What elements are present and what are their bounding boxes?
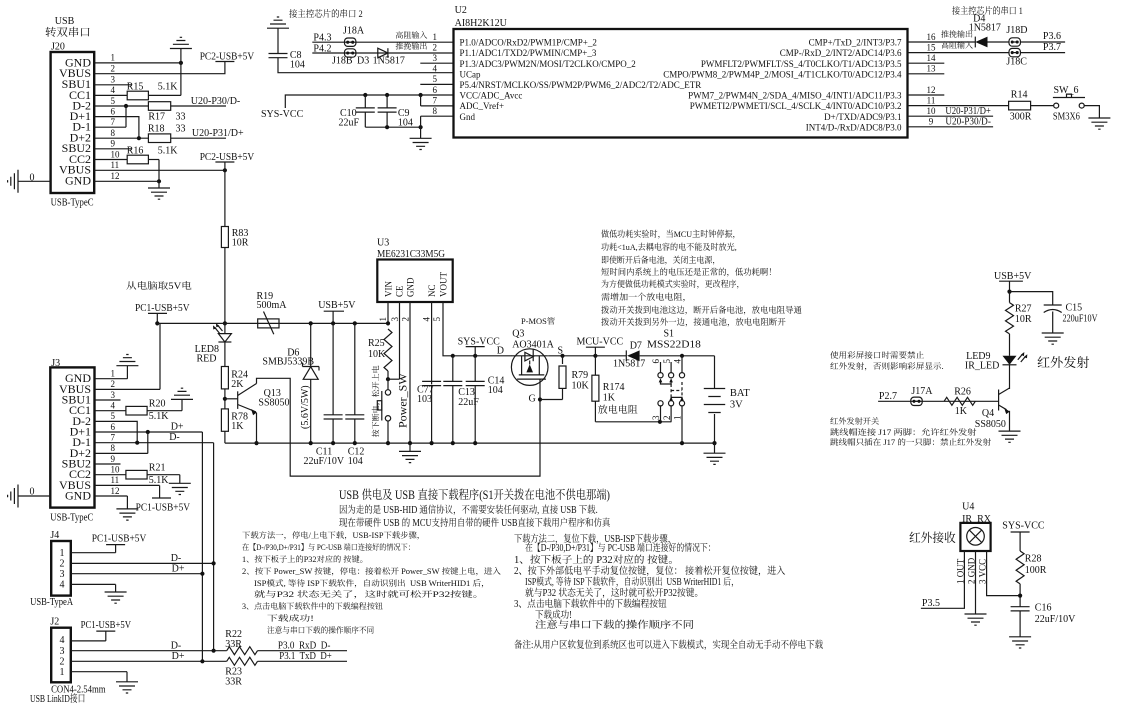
svg-text:15: 15: [927, 42, 937, 52]
wire R27 to LED9: [1009, 334, 1011, 356]
wire Q3 gate: [539, 386, 541, 400]
diode D7 1N5817: [595, 355, 626, 357]
U2 pin16 wire: [908, 41, 976, 43]
resistor R18: [148, 134, 170, 143]
J4 pin4 wire to gnd: [71, 583, 116, 585]
svg-text:3 VCC: 3 VCC: [978, 559, 988, 584]
svg-text:R174: R174: [603, 382, 625, 393]
svg-text:RED: RED: [197, 354, 217, 365]
svg-text:5: 5: [662, 359, 672, 364]
svg-text:P3.6: P3.6: [1043, 31, 1061, 42]
J3 earth ground 0: [8, 485, 18, 508]
capacitor C8: [269, 54, 288, 58]
svg-text:R79: R79: [572, 370, 589, 381]
resistor R26: [944, 397, 975, 405]
svg-text:D+: D+: [172, 651, 185, 662]
svg-text:3: 3: [432, 53, 437, 63]
J20 earth ground 0: [8, 170, 18, 193]
svg-text:300R: 300R: [1010, 112, 1032, 123]
S1 linkage dashed: [671, 382, 682, 397]
svg-text:10: 10: [927, 106, 937, 116]
U2 pin13 stub: [908, 73, 945, 75]
svg-text:1N5817: 1N5817: [373, 56, 405, 67]
ground below U4: [965, 614, 987, 625]
J20 pin3 stub: [94, 84, 131, 86]
svg-text:5.1K: 5.1K: [158, 146, 179, 157]
svg-text:0: 0: [30, 487, 35, 498]
resistor R28: [1016, 551, 1024, 584]
svg-text:4: 4: [111, 85, 116, 95]
svg-text:1K: 1K: [603, 393, 616, 404]
J2 pin4 wire to PC1-USB+5V: [71, 640, 106, 642]
svg-text:U20-P30/D-: U20-P30/D-: [191, 96, 240, 107]
J3 pin9 stub: [95, 463, 121, 465]
J4 pin2 wire D-: [71, 562, 214, 564]
resistor R25: [384, 329, 392, 371]
J2 pin2 wire D+: [71, 660, 227, 662]
svg-text:VOUT: VOUT: [439, 272, 449, 297]
svg-text:4: 4: [673, 359, 683, 364]
svg-text:8: 8: [432, 106, 437, 116]
resistor R15: [127, 91, 148, 100]
ground below C16: [1009, 637, 1031, 648]
U2 pin3 stub: [420, 62, 453, 64]
svg-text:USB: USB: [55, 16, 75, 27]
resistor R16: [127, 155, 148, 164]
svg-text:10K: 10K: [368, 349, 386, 360]
svg-text:6: 6: [432, 85, 437, 95]
svg-text:C15: C15: [1066, 303, 1083, 314]
J20 pin2 wire to PC2-USB+5V: [94, 62, 225, 74]
svg-text:1K: 1K: [231, 421, 244, 432]
svg-text:U3: U3: [377, 238, 389, 249]
ground below J4 pin4: [105, 592, 127, 603]
svg-text:1: 1: [60, 548, 65, 559]
svg-text:5.1K: 5.1K: [149, 411, 170, 422]
capacitor C11: [332, 323, 334, 414]
svg-text:R25: R25: [368, 338, 385, 349]
J2 pin1 wire to gnd: [71, 671, 127, 673]
power flag PC2-USB+5V (mid): [215, 161, 234, 163]
svg-text:1 OUT: 1 OUT: [955, 558, 965, 584]
svg-text:33R: 33R: [225, 639, 242, 650]
J3 pin5 wire: [95, 421, 138, 442]
J4 pin3 wire D+: [71, 573, 203, 575]
svg-text:5: 5: [432, 74, 437, 84]
power flag PC1-USB+5V (J3 low, inverted): [152, 497, 171, 499]
svg-text:100R: 100R: [1025, 565, 1047, 576]
wire J18C to P3.7: [1021, 52, 1065, 54]
capacitor C14: [473, 354, 477, 358]
capacitor C12: [353, 321, 357, 325]
J3 pin4 wire: [95, 410, 126, 412]
wire R17 to U20-P30/D-: [171, 105, 226, 107]
svg-text:BAT: BAT: [730, 388, 750, 399]
svg-text:SMBJ5339B: SMBJ5339B: [262, 357, 314, 368]
wire R28 to node: [1019, 584, 1021, 607]
svg-text:SM3X6: SM3X6: [1053, 112, 1080, 123]
svg-text:10: 10: [111, 149, 121, 159]
svg-text:11: 11: [927, 95, 936, 105]
svg-text:NC: NC: [427, 284, 437, 297]
svg-text:D-: D-: [171, 553, 182, 564]
U2 pin11 wire to R14: [908, 105, 1009, 107]
svg-text:R18: R18: [148, 124, 165, 135]
svg-text:4: 4: [60, 580, 65, 591]
U3 pin4 NC wire: [431, 302, 433, 381]
svg-text:11: 11: [111, 160, 120, 170]
svg-text:AI8H2K12U: AI8H2K12U: [455, 18, 508, 29]
svg-text:CON4-2.54mm: CON4-2.54mm: [51, 684, 106, 695]
svg-text:1: 1: [432, 32, 437, 42]
svg-text:10R: 10R: [1015, 314, 1032, 325]
power flag PC2-USB+5V (top): [215, 61, 234, 63]
svg-text:1N5817: 1N5817: [613, 359, 645, 370]
svg-text:5: 5: [432, 317, 442, 322]
J4 pin1 wire to PC1-USB+5V: [71, 552, 116, 554]
capacitor C10: [364, 95, 366, 108]
wire D-2 to D-1: [125, 106, 127, 127]
wire D+1 to D+2: [147, 432, 149, 453]
U3 pin2 GND wire: [409, 302, 411, 443]
svg-text:J18C: J18C: [1006, 57, 1027, 68]
svg-text:UCap: UCap: [460, 69, 481, 79]
wire D7 to S1/BAT: [640, 355, 715, 357]
svg-text:9: 9: [929, 117, 934, 127]
svg-text:7: 7: [111, 117, 116, 127]
U3 pin1 VIN wire: [387, 302, 389, 323]
svg-text:P1.3/ADC3/PWM2N/MOSI/T2CLKO/CM: P1.3/ADC3/PWM2N/MOSI/T2CLKO/CMPO_2: [460, 59, 636, 69]
svg-text:G: G: [529, 394, 536, 405]
ground below U3 GND: [409, 443, 411, 451]
power flag PC1-USB+5V (J4): [106, 544, 125, 546]
U2 pin9 wire: [908, 126, 994, 128]
svg-text:5: 5: [111, 96, 116, 106]
svg-text:P3.7: P3.7: [1043, 42, 1061, 53]
svg-text:USB+5V: USB+5V: [994, 271, 1032, 282]
svg-text:4: 4: [111, 401, 116, 411]
svg-text:CE: CE: [395, 285, 405, 297]
wire R21 to gnd: [147, 474, 180, 476]
svg-text:P5.4/NRST/MCLKO/SS/PWM2P/PWM6_: P5.4/NRST/MCLKO/SS/PWM2P/PWM6_2/ADC2/T2/…: [460, 80, 702, 90]
svg-text:R26: R26: [954, 387, 971, 398]
svg-text:1: 1: [111, 369, 116, 379]
resistor R24: [221, 367, 228, 389]
S1 pin stubs top: [660, 362, 662, 373]
svg-text:16: 16: [927, 32, 937, 42]
svg-text:GND: GND: [65, 488, 91, 502]
capacitor C15 220uF10V: [1044, 304, 1062, 306]
capacitor C9: [386, 95, 388, 108]
svg-text:9: 9: [111, 139, 116, 149]
wire gnd to C8: [277, 28, 279, 53]
ground below J3 pin12: [126, 496, 128, 509]
svg-text:7: 7: [111, 433, 116, 443]
svg-text:2: 2: [401, 317, 411, 322]
+5V rail wire: [157, 322, 388, 324]
S1 common bracket bottom: [671, 397, 682, 399]
svg-text:104: 104: [290, 60, 305, 71]
J20 pin4 wire: [94, 94, 127, 96]
svg-text:D3: D3: [357, 56, 369, 67]
svg-text:J18B: J18B: [332, 56, 353, 67]
svg-text:PC2-USB+5V: PC2-USB+5V: [200, 52, 255, 63]
svg-text:CMP-/RxD_2/INT2/ADC14/P3.6: CMP-/RxD_2/INT2/ADC14/P3.6: [780, 48, 902, 58]
svg-text:1: 1: [378, 317, 388, 322]
resistor R17: [148, 102, 170, 111]
svg-text:P3.5: P3.5: [922, 598, 940, 609]
svg-text:3: 3: [111, 390, 116, 400]
svg-text:U20-P30/D-: U20-P30/D-: [945, 117, 991, 128]
svg-text:2K: 2K: [231, 379, 244, 390]
wire Q4 emitter to gnd: [1009, 411, 1011, 431]
svg-text:USB+5V: USB+5V: [318, 300, 356, 311]
J3 pin3 stub: [95, 399, 121, 401]
svg-text:R27: R27: [1015, 304, 1032, 315]
svg-text:2: 2: [662, 416, 672, 421]
svg-text:IR_LED: IR_LED: [965, 361, 999, 372]
J3 pin2 wire from PC1-USB+5V: [95, 388, 161, 390]
svg-text:PC1-USB+5V: PC1-USB+5V: [92, 534, 147, 545]
svg-text:SYS-VCC: SYS-VCC: [261, 109, 304, 120]
ground below J2 pin1: [116, 682, 138, 693]
wire R22 to P3.0: [258, 650, 348, 652]
svg-text:Gnd: Gnd: [460, 112, 476, 122]
wire R18 to U20-P31/D+: [171, 137, 226, 139]
wire C8 to U2 pin4 UCap: [278, 58, 454, 73]
transistor Q4 SS8050: [998, 390, 1000, 411]
U4 pin2 GND wire: [975, 551, 977, 614]
U3 pin5 VOUT wire: [443, 302, 512, 356]
wire Q3 S to MCU-VCC node: [548, 355, 595, 357]
ground below U2 pin8: [410, 138, 432, 149]
S1 pin stubs bottom: [660, 406, 662, 422]
U2 pin5 stub: [420, 83, 453, 85]
svg-text:PWM7_2/PWM4N_2/SDA_4/MISO_4/IN: PWM7_2/PWM4N_2/SDA_4/MISO_4/INT1/ADC11/P…: [688, 91, 902, 101]
svg-text:MCU-VCC: MCU-VCC: [577, 337, 624, 348]
svg-text:P3.1 TxD D+: P3.1 TxD D+: [279, 651, 332, 662]
svg-text:R15: R15: [127, 82, 144, 93]
svg-text:CMPO/PWM8_2/PWM4P_2/MOSI_4/T1C: CMPO/PWM8_2/PWM4P_2/MOSI_4/T1CLKO/T0/ADC…: [663, 69, 902, 79]
resistor R23: [227, 657, 258, 665]
svg-text:6: 6: [111, 106, 116, 116]
svg-text:ADC_Vref+: ADC_Vref+: [460, 101, 505, 111]
svg-text:R14: R14: [1011, 90, 1028, 101]
battery BAT 3V: [714, 356, 716, 389]
wire R24 to node: [224, 389, 226, 409]
svg-text:22uF/10V: 22uF/10V: [1035, 614, 1076, 625]
svg-text:22uF/10V: 22uF/10V: [304, 456, 345, 467]
svg-text:500mA: 500mA: [257, 300, 288, 311]
resistor R78: [221, 409, 228, 431]
svg-text:5.1K: 5.1K: [149, 475, 170, 486]
svg-text:6: 6: [651, 359, 661, 364]
svg-text:VIN: VIN: [384, 281, 394, 297]
svg-text:USB-TypeC: USB-TypeC: [51, 198, 94, 209]
wire R83 to +5V rail: [224, 248, 226, 324]
svg-text:4: 4: [422, 317, 432, 322]
U2 pin7 wire: [421, 105, 454, 107]
svg-text:P2.7: P2.7: [879, 391, 897, 402]
svg-text:J2: J2: [50, 617, 59, 628]
svg-text:33R: 33R: [225, 677, 242, 688]
wire R78 to gnd rail: [224, 431, 226, 443]
svg-text:2: 2: [60, 656, 65, 667]
wire P4.3 to U2 pin1: [312, 41, 453, 43]
svg-text:0: 0: [30, 173, 35, 184]
svg-text:SW_6: SW_6: [1054, 85, 1079, 96]
svg-text:1: 1: [673, 416, 683, 421]
ground below battery: [714, 443, 716, 453]
U2 pin12 stub: [908, 94, 945, 96]
J3 pin6 wire D+: [95, 431, 203, 433]
svg-text:D+: D+: [171, 422, 184, 433]
svg-text:R20: R20: [149, 399, 166, 410]
J3 pin10 wire: [95, 474, 126, 476]
svg-text:J18A: J18A: [343, 26, 365, 37]
wire R15 to gnd-net: [148, 94, 181, 96]
svg-text:PC2-USB+5V: PC2-USB+5V: [200, 152, 255, 163]
svg-text:220uF10V: 220uF10V: [1063, 314, 1099, 325]
svg-text:12: 12: [111, 486, 120, 496]
svg-text:3: 3: [390, 317, 400, 322]
U3 pin3 CE wire: [399, 302, 401, 379]
resistor R14: [1009, 101, 1031, 110]
svg-text:P1.1/ADC1/TXD2/PWMIN/CMP+_3: P1.1/ADC1/TXD2/PWMIN/CMP+_3: [460, 48, 597, 58]
wire J20-VBUS down to R83: [224, 170, 226, 226]
svg-text:10: 10: [111, 465, 121, 475]
svg-text:1: 1: [60, 667, 65, 678]
svg-text:5.1K: 5.1K: [158, 82, 179, 93]
svg-text:USB-TypeC: USB-TypeC: [50, 513, 93, 524]
svg-text:U4: U4: [962, 502, 974, 513]
jumper J18D: [1009, 38, 1020, 46]
capacitor C13: [451, 354, 455, 358]
svg-text:U20-P31/D+: U20-P31/D+: [192, 128, 244, 139]
wire P4.2 to U2 pin2: [312, 52, 453, 54]
J20 pin9 stub: [94, 148, 131, 150]
svg-text:SS8050: SS8050: [975, 419, 1006, 430]
D- vertical bus: [213, 443, 215, 651]
wire R20 to gnd: [147, 410, 182, 412]
svg-text:14: 14: [927, 53, 937, 63]
svg-text:GND: GND: [406, 277, 416, 297]
diode D3 1N5817: [378, 48, 388, 58]
U2 pin8 Gnd wire: [421, 115, 454, 117]
svg-text:VCC/ADC_Avcc: VCC/ADC_Avcc: [460, 91, 523, 101]
svg-text:D7: D7: [630, 341, 642, 352]
svg-text:D+/TXD/ADC9/P3.1: D+/TXD/ADC9/P3.1: [824, 112, 901, 122]
transistor Q13 SS8050: [225, 398, 238, 400]
jumper J18C: [1009, 48, 1020, 56]
svg-text:103: 103: [417, 394, 432, 405]
svg-text:D-: D-: [169, 432, 180, 443]
svg-text:J18D: J18D: [1006, 25, 1027, 36]
svg-text:GND: GND: [65, 174, 91, 188]
U4 pin1 OUT wire: [921, 551, 965, 608]
U2 pin10 wire: [908, 115, 994, 117]
svg-text:U20-P31/D+: U20-P31/D+: [945, 106, 991, 117]
ground above J3 pin1: [126, 366, 128, 379]
svg-text:INT4/D-/RxD/ADC8/P3.0: INT4/D-/RxD/ADC8/P3.0: [806, 122, 902, 132]
J20 pin1 wire: [94, 62, 181, 64]
resistor R22: [227, 647, 258, 655]
wire caps to gnd node: [365, 126, 420, 128]
svg-text:9: 9: [111, 454, 116, 464]
svg-text:(5.6V/5W): (5.6V/5W): [300, 385, 311, 429]
wire D4 to J18D: [988, 41, 1009, 43]
jumper J17A: [911, 397, 922, 405]
svg-text:2: 2: [111, 64, 116, 74]
J20 pin10 wire: [94, 159, 127, 161]
svg-text:4: 4: [60, 635, 65, 646]
svg-text:10K: 10K: [572, 381, 590, 392]
gnd rail (main): [225, 442, 715, 444]
svg-text:10R: 10R: [232, 238, 249, 249]
wire R16 to gnd: [148, 159, 159, 161]
svg-text:P3.0 RxD D-: P3.0 RxD D-: [278, 640, 331, 651]
svg-text:2: 2: [111, 379, 116, 389]
wire R25 to CE: [387, 371, 389, 379]
svg-text:33: 33: [176, 124, 186, 135]
svg-text:33: 33: [176, 112, 186, 123]
svg-text:1: 1: [111, 53, 116, 63]
LED LED8 RED: [224, 323, 226, 333]
wire R79 to gate: [540, 399, 563, 401]
ground above C8: [267, 17, 289, 28]
wire SYS-VCC to U2 pin6: [285, 95, 453, 108]
svg-text:3: 3: [60, 569, 65, 580]
svg-text:PWMFLT2/PWMFLT/SS_4/T0CLKO/T1/: PWMFLT2/PWMFLT/SS_4/T0CLKO/T1/ADC13/P3.5: [701, 59, 902, 69]
resistor R174: [594, 356, 596, 375]
J20 pin11 wire VBUS: [94, 169, 225, 171]
svg-text:22uF: 22uF: [339, 118, 360, 129]
wire LED9 to Q4: [1009, 365, 1011, 389]
svg-text:D-: D-: [171, 640, 182, 651]
U2 pin15 wire: [908, 52, 1009, 54]
svg-text:1N5817: 1N5817: [969, 23, 1001, 34]
svg-text:104: 104: [348, 456, 363, 467]
wire R174 to S1 pins 2/3: [595, 421, 671, 423]
svg-text:2: 2: [432, 42, 437, 52]
wire R23 to P3.1: [258, 660, 348, 662]
svg-text:12: 12: [927, 85, 936, 95]
svg-text:D: D: [497, 346, 504, 357]
svg-text:SYS-VCC: SYS-VCC: [1002, 521, 1045, 532]
wire SW_6 to gnd: [1085, 106, 1100, 118]
svg-text:SYS-VCC: SYS-VCC: [458, 337, 501, 348]
wire LED8 to R24: [224, 342, 226, 367]
svg-text:22uF: 22uF: [458, 397, 479, 408]
svg-text:SS8050: SS8050: [258, 398, 289, 409]
J20 pin5 wire: [94, 105, 148, 107]
resistor R83: [221, 227, 228, 248]
svg-text:8: 8: [111, 128, 116, 138]
svg-text:J4: J4: [50, 530, 59, 541]
power flag PC1-USB+5V (J2): [96, 630, 115, 632]
J2 pin3 wire D-: [71, 650, 227, 652]
svg-text:Q3: Q3: [512, 329, 524, 340]
ground above R20: [171, 388, 193, 399]
LED LED9 IR_LED: [1003, 356, 1017, 365]
svg-text:PC1-USB+5V: PC1-USB+5V: [136, 503, 191, 514]
wire J18D to P3.6: [1021, 41, 1065, 43]
jumper J18A: [345, 38, 356, 46]
J20 pin7 wire: [94, 126, 126, 128]
D+ vertical bus: [201, 432, 203, 661]
J3 pin11 wire: [95, 484, 160, 486]
svg-text:MSS22D18: MSS22D18: [647, 340, 701, 351]
